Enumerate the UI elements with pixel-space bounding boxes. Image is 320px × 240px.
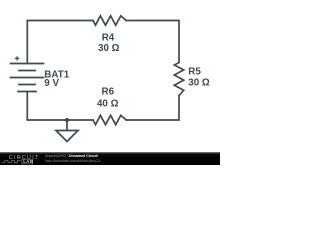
svg-text:jhaynes2002 / Unnamed Circuit: jhaynes2002 / Unnamed Circuit	[45, 154, 99, 158]
battery BAT1 negative terminal plate	[18, 91, 36, 93]
svg-text:R4: R4	[102, 33, 115, 44]
resistor R4	[93, 16, 126, 25]
wire: bottom wire left segment	[27, 92, 93, 121]
battery BAT1 plate long 2	[11, 77, 44, 79]
battery BAT1 plate short 2	[19, 84, 35, 86]
resistor R6	[93, 115, 126, 124]
svg-text:R5: R5	[188, 67, 201, 78]
svg-text:30 Ω: 30 Ω	[188, 78, 210, 89]
logo waveform	[2, 161, 21, 163]
svg-text:30 Ω: 30 Ω	[98, 43, 120, 54]
wire: top-left vertical + top wire left segment	[27, 21, 93, 64]
svg-text:http://circuitlab.com/c8rkbh4p: http://circuitlab.com/c8rkbh4phy23	[46, 159, 101, 163]
wire: right wire lower + bottom wire right segment	[126, 96, 179, 120]
ground stub wire	[66, 120, 68, 131]
logo LAB box	[22, 159, 33, 164]
node junction dot	[65, 118, 69, 122]
svg-text:9 V: 9 V	[44, 78, 59, 89]
svg-text:R6: R6	[102, 86, 115, 97]
battery BAT1 plate long 1	[11, 63, 44, 65]
battery plus sign	[15, 56, 19, 60]
svg-text:LAB: LAB	[23, 159, 33, 164]
resistor R5	[174, 63, 183, 96]
wire: top wire right segment + right wire upper	[126, 21, 179, 63]
svg-text:40 Ω: 40 Ω	[97, 98, 119, 109]
ground symbol triangle	[56, 131, 78, 142]
battery BAT1 plate short 1	[19, 70, 35, 72]
